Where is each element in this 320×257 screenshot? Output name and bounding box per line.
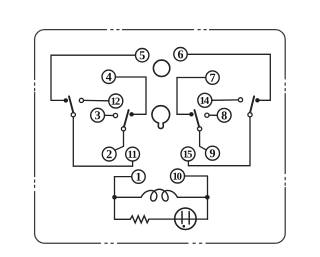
resistor R1 [130, 216, 149, 223]
coil L1 [141, 189, 178, 201]
junction dot pole P2 [129, 112, 133, 116]
wire coil left lead [115, 196, 142, 198]
wire coil-box left side [114, 177, 116, 220]
wire pin5 to pole P1 [51, 55, 136, 100]
case outline (dash-dot rounded border) [35, 30, 286, 244]
mounting hole (top center) [153, 60, 169, 76]
pin 11 label [128, 151, 136, 158]
pin 12 label [112, 98, 120, 105]
pin 9 terminal circle [206, 146, 220, 160]
junction dot pole P3 [255, 98, 259, 102]
moving contact circle pole P4 [198, 127, 202, 131]
pin 1 terminal circle [132, 170, 145, 183]
moving contact circle pole P3 [248, 113, 252, 117]
keyway hole (center) [152, 106, 170, 129]
pin 11 terminal circle [126, 147, 140, 161]
moving contact circle pole P2 [121, 127, 125, 131]
wire pole P4 to pin 9 [200, 131, 207, 150]
pin 15 label [184, 151, 192, 158]
switch blade pole P1 [69, 96, 73, 112]
fixed contact circle pin14 [238, 98, 242, 102]
pin 10 terminal circle [171, 169, 185, 183]
pin 10 label [173, 173, 181, 180]
neon lamp DS1 envelope [175, 208, 196, 229]
pin 1 label [136, 173, 140, 181]
pin 2 terminal circle [102, 147, 116, 161]
pin 3 label [95, 111, 100, 119]
pin 8 label [222, 111, 227, 119]
junction dot pole P4 [189, 112, 193, 116]
wire pole P1 to pin 11 [73, 117, 132, 166]
junction dot coil left [112, 195, 117, 200]
pin 4 label [106, 73, 112, 81]
pin 12 terminal circle [109, 94, 123, 108]
moving contact circle pole P1 [71, 113, 75, 117]
wire coil-box right side [207, 176, 209, 219]
pin 2 label [107, 150, 112, 158]
pin 6 terminal circle [174, 48, 187, 61]
lamp gas dot [183, 225, 186, 228]
wire pin7 to pole P4 [177, 78, 206, 115]
pin 8 terminal circle [217, 108, 231, 122]
pin 6 label [178, 50, 183, 58]
switch blade pole P2 [124, 110, 129, 127]
wire pin 10 to coil-box top right [185, 175, 208, 177]
pin 5 terminal circle [136, 49, 149, 62]
wire resistor to lamp and through to right side [149, 218, 208, 220]
pin 7 terminal circle [206, 71, 219, 84]
pin 5 label [140, 51, 145, 59]
junction dot coil right [205, 195, 210, 200]
pin 7 label [210, 74, 215, 82]
pin 4 terminal circle [102, 70, 115, 83]
switch blade pole P3 [250, 96, 254, 112]
pin 14 terminal circle [198, 93, 212, 107]
wire coil-box top left to pin 1 [115, 176, 132, 178]
wire pin12 contact to circle 12 [84, 99, 109, 101]
wire pole P3 to pin 15 [188, 117, 250, 166]
wire pin3 to contact [105, 114, 114, 116]
wire bottom branch left [115, 218, 131, 220]
fixed contact circle pin8 [205, 113, 209, 117]
fixed contact circle pin3 [113, 113, 117, 117]
pin 14 label [201, 97, 210, 104]
pin 15 terminal circle [181, 147, 195, 161]
lamp electrode left [181, 212, 183, 224]
fixed contact circle pin12 [79, 98, 83, 102]
junction dot pole P1 [64, 98, 68, 102]
wire pin14 to contact [212, 99, 238, 101]
wire coil right lead [178, 196, 206, 198]
pin 9 label [210, 149, 215, 157]
wire pin4 to pole P2 [115, 77, 146, 114]
wire pin8 to contact [209, 114, 217, 116]
lamp electrode right [188, 212, 190, 225]
wire pole P2 to pin 2 [115, 131, 124, 150]
wire pin6 to pole P3 [187, 54, 270, 100]
switch blade pole P4 [195, 110, 200, 127]
pin 3 terminal circle [91, 108, 105, 122]
